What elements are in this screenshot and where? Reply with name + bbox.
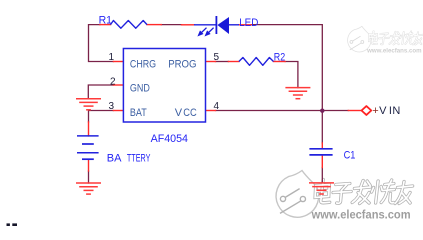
svg-text:5: 5: [214, 52, 220, 63]
svg-text:V: V: [175, 107, 183, 119]
svg-text:PROG: PROG: [168, 58, 196, 70]
svg-text:LED: LED: [239, 17, 258, 29]
svg-text:CC: CC: [183, 107, 197, 119]
svg-text:4: 4: [214, 101, 220, 112]
svg-text:C1: C1: [344, 150, 356, 162]
svg-text:1: 1: [108, 52, 114, 63]
svg-text:R1: R1: [99, 15, 112, 27]
svg-text:AF4054: AF4054: [151, 133, 188, 145]
svg-text:BA: BA: [107, 152, 122, 164]
svg-text:2: 2: [110, 76, 116, 87]
svg-text:TTERY: TTERY: [127, 152, 151, 164]
svg-text:www.elecfans.com: www.elecfans.com: [311, 210, 411, 222]
svg-text:BAT: BAT: [130, 107, 147, 119]
svg-text:R2: R2: [274, 52, 285, 64]
svg-text:+VIN: +VIN: [372, 105, 400, 117]
svg-text:GND: GND: [130, 83, 150, 95]
svg-text:3: 3: [108, 101, 114, 112]
svg-text:CHRG: CHRG: [130, 58, 156, 70]
